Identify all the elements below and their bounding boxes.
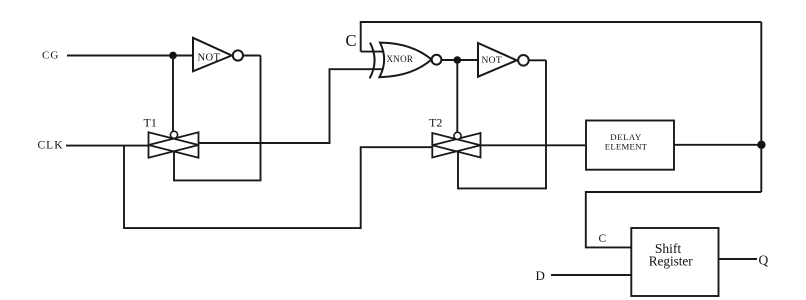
wire from rail down-left to shift register clock <box>586 192 762 247</box>
wire U3 output <box>529 59 546 61</box>
svg-text:Q: Q <box>759 252 769 267</box>
wire U1 output <box>243 55 261 57</box>
transmission gate T1 bowtie <box>149 132 199 157</box>
svg-text:D: D <box>536 268 545 283</box>
delay element box U4 <box>586 121 674 170</box>
svg-text:NOT: NOT <box>198 53 221 64</box>
wire CLK branch down, across bottom, up to T2 input <box>124 146 432 229</box>
wire feedback U1 to T1 bottom <box>174 56 261 181</box>
junction dot right rail <box>757 141 765 149</box>
wire top feedback rail <box>361 22 762 52</box>
junction dot after XNOR <box>454 56 462 64</box>
transmission gate T1 control bubble <box>170 131 177 138</box>
xnor gate U2 body <box>379 43 431 78</box>
svg-text:C: C <box>346 31 357 50</box>
svg-text:XNOR: XNOR <box>387 54 414 64</box>
junction dot on CG line <box>169 52 177 60</box>
svg-text:NOT: NOT <box>482 56 502 66</box>
wire CLK input <box>66 145 149 147</box>
svg-text:ELEMENT: ELEMENT <box>605 142 648 152</box>
svg-text:CG: CG <box>42 50 59 62</box>
xnor U2 output bubble <box>432 55 442 65</box>
wire CG input <box>67 55 193 57</box>
wire delay element output <box>674 144 761 146</box>
shift register box U5 <box>631 228 718 296</box>
wire Q output <box>719 258 758 260</box>
wire XNOR output to NOT2 <box>441 59 478 61</box>
inverter U3 triangle <box>478 43 517 77</box>
svg-text:CLK: CLK <box>38 140 64 152</box>
svg-text:Register: Register <box>649 253 694 268</box>
wire T1 output to XNOR lower input <box>199 69 384 143</box>
wire T2 output to delay element <box>481 144 586 146</box>
svg-text:T1: T1 <box>144 116 157 130</box>
wire feedback U3 to T2 bottom <box>458 60 546 188</box>
wire control T1 (from CG junction) <box>172 56 174 132</box>
transmission gate T2 control bubble <box>454 132 461 139</box>
svg-text:T2: T2 <box>429 116 442 130</box>
inverter U1 output bubble <box>233 50 243 60</box>
xnor gate U2 extra input arc <box>370 43 375 79</box>
wire control T2 (from XNOR output node) <box>456 60 458 132</box>
wire D input <box>551 274 631 276</box>
wire right rail vertical <box>760 22 762 192</box>
transmission gate T2 bowtie <box>432 133 480 158</box>
inverter U3 output bubble <box>518 55 529 66</box>
op-amp-style inverter U1 triangle <box>193 38 232 72</box>
wire XNOR upper input stub <box>361 51 383 53</box>
svg-text:C: C <box>599 233 607 245</box>
svg-text:DELAY: DELAY <box>610 132 642 142</box>
